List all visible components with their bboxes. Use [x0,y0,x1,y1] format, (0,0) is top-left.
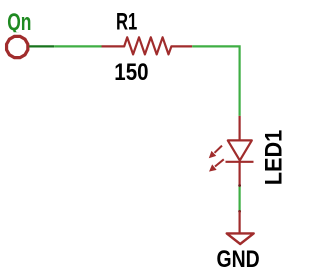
value 150 [114,59,148,86]
LED LED1 cathode bar [226,161,254,163]
resistor R1 [102,37,193,54]
label LED1 [260,130,287,186]
wire (green, LED1 to GND) [239,186,241,212]
junction (wire to ground lead) [238,210,241,213]
junction (LED cathode to wire) [238,184,241,187]
LED LED1 anode lead [239,116,241,140]
wire (green, terminal to R1) [54,45,101,47]
node Qn (net label) [7,9,31,36]
LED LED1 triangle [228,140,252,160]
svg-text:150: 150 [114,59,148,86]
ground symbol triangle [227,233,254,244]
svg-text:Qn: Qn [7,9,31,36]
svg-text:GND: GND [217,246,260,272]
label GND [217,246,260,272]
LED LED1 cathode lead [239,162,241,186]
terminal Qn (pin circle) [7,36,28,57]
label R1 [116,9,137,36]
ground lead [239,211,241,233]
LED LED1 light arrow 2 [209,159,224,171]
wire (green, R1 to LED1, with corner) [192,46,239,116]
svg-text:LED1: LED1 [260,130,282,186]
wire (pin leg, dark green) [29,45,54,47]
svg-text:R1: R1 [116,9,137,36]
LED LED1 light arrow 1 [209,146,222,159]
